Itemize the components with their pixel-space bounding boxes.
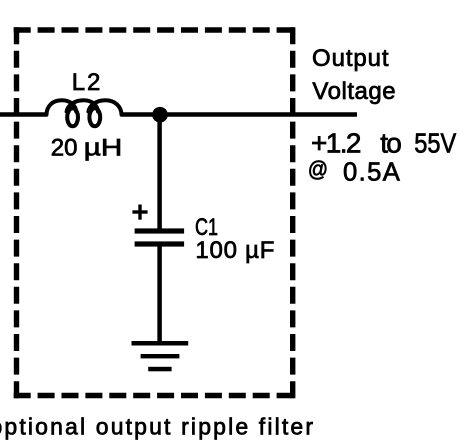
svg-text:to: to: [380, 127, 402, 158]
dashed enclosure box: bottom edge: [14, 393, 296, 399]
dashed enclosure box: left edge: [14, 27, 19, 398]
wire: junction down to capacitor top plate: [157, 115, 162, 231]
capacitor C1 polarity plus sign: [132, 205, 147, 220]
svg-text:Voltage: Voltage: [312, 78, 395, 105]
node: junction dot at inductor/capacitor/output: [152, 107, 168, 123]
svg-text:0.5A: 0.5A: [343, 158, 401, 186]
svg-text:L2: L2: [72, 69, 101, 96]
wire: capacitor bottom plate down to ground: [157, 244, 162, 343]
wire: input wire from left edge to inductor: [0, 112, 48, 117]
svg-text:Output: Output: [312, 45, 389, 72]
label: output current @ 0.5A: [308, 156, 401, 186]
dashed enclosure box: top edge: [14, 27, 296, 33]
ground symbol (three bars): [132, 341, 189, 371]
svg-text:55V: 55V: [414, 127, 456, 158]
inductor L2 (three humps with two loops): [47, 100, 122, 126]
svg-text:20: 20: [51, 135, 78, 162]
wire: output wire from inductor to right, past dashed box: [121, 112, 358, 117]
svg-text:µH: µH: [84, 135, 123, 162]
svg-text:optional output ripple filter: optional output ripple filter: [0, 413, 313, 439]
label: output voltage range +1.2 to 55V: [311, 127, 457, 158]
dashed enclosure box: right edge: [290, 27, 295, 398]
svg-text:+1.2: +1.2: [311, 127, 362, 158]
capacitor C1 bottom plate: [135, 241, 185, 246]
svg-text:100 µF: 100 µF: [195, 237, 274, 264]
capacitor C1 top plate: [135, 228, 185, 233]
label: inductor value 20 uH: [51, 135, 123, 162]
svg-text:@: @: [308, 156, 328, 181]
